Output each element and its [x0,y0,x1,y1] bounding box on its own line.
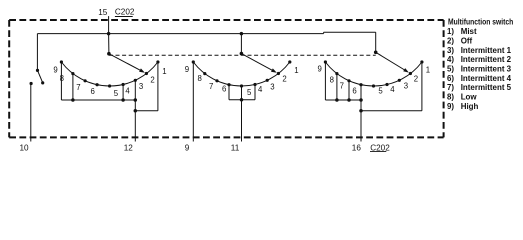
svg-text:9: 9 [185,144,190,153]
svg-text:1): 1) [447,27,454,36]
svg-text:1: 1 [162,67,166,76]
svg-text:4: 4 [125,86,130,95]
svg-text:9): 9) [447,102,454,111]
svg-text:7: 7 [340,82,344,91]
svg-text:15: 15 [98,8,108,17]
svg-text:Intermittent 2: Intermittent 2 [461,55,512,64]
svg-text:9: 9 [185,65,189,74]
svg-text:6): 6) [447,74,454,83]
svg-text:6: 6 [90,87,94,96]
svg-text:Off: Off [461,36,473,45]
svg-text:Low: Low [461,92,478,101]
svg-text:7: 7 [209,82,213,91]
svg-text:6: 6 [352,87,356,96]
svg-text:9: 9 [53,65,57,74]
svg-text:3: 3 [270,82,274,91]
svg-text:4: 4 [390,85,395,94]
svg-text:5: 5 [378,87,383,96]
svg-text:9: 9 [318,65,322,74]
svg-text:2: 2 [414,75,418,84]
svg-text:3): 3) [447,46,454,55]
svg-text:12: 12 [124,144,134,153]
svg-text:11: 11 [231,144,240,153]
svg-text:3: 3 [404,81,408,90]
svg-text:Intermittent 3: Intermittent 3 [461,64,512,73]
svg-text:High: High [461,102,479,111]
svg-text:Intermittent 5: Intermittent 5 [461,83,512,92]
svg-text:5: 5 [114,89,119,98]
svg-text:8: 8 [330,76,334,85]
svg-text:10: 10 [19,144,29,153]
svg-text:Mist: Mist [461,27,477,36]
svg-text:1: 1 [426,65,430,74]
svg-text:8): 8) [447,92,454,101]
svg-text:2: 2 [282,74,286,83]
svg-text:4: 4 [258,85,263,94]
svg-text:7): 7) [447,83,454,92]
svg-text:6: 6 [222,85,226,94]
svg-text:Intermittent 4: Intermittent 4 [461,74,512,83]
svg-text:Intermittent 1: Intermittent 1 [461,46,512,55]
svg-text:5: 5 [247,88,252,97]
svg-text:1: 1 [294,66,298,75]
svg-text:2: 2 [150,75,154,84]
svg-text:3: 3 [139,82,143,91]
svg-text:Multifunction switch: Multifunction switch [448,17,514,27]
svg-text:2): 2) [447,36,454,45]
svg-text:C202: C202 [115,8,135,17]
svg-text:8: 8 [197,74,201,83]
svg-text:7: 7 [76,83,80,92]
svg-text:5): 5) [447,64,454,73]
svg-text:4): 4) [447,55,454,64]
svg-text:16: 16 [352,144,362,153]
